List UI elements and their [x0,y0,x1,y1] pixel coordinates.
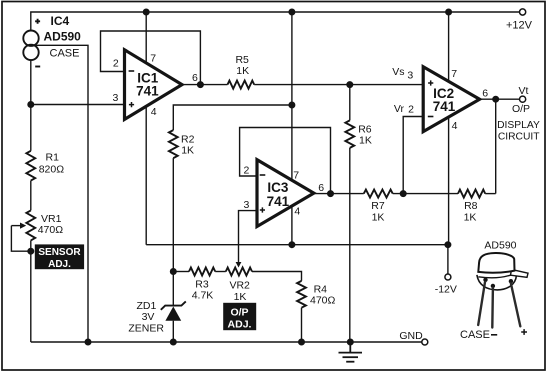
svg-text:3: 3 [407,69,413,81]
resistor R7 1K [364,190,393,224]
svg-text:3: 3 [243,199,249,211]
svg-text:CASE: CASE [50,47,80,59]
wire +12V top rail [31,12,520,30]
wire R4 to ground [301,308,303,342]
svg-text:1K: 1K [372,211,385,223]
wire R3 to VR2 [215,271,226,273]
node IC1 pin3 junction [28,102,34,108]
wire VR2 to R4 [252,272,302,281]
node IC1 output junction [198,82,204,88]
wire IC4 case lead to ground [36,45,89,342]
can body [478,253,514,273]
wire IC2 output down to R8 [495,99,497,193]
svg-text:VR2: VR2 [229,280,250,292]
ground symbol [339,342,363,362]
arrowhead VR2 wiper [236,262,242,268]
terminal Vt O/P [520,96,526,102]
node R6-gnd [348,339,354,345]
potentiometer VR2 1K [226,268,252,303]
svg-text:2: 2 [243,164,249,176]
svg-text:DISPLAY: DISPLAY [497,120,540,131]
node R4-gnd [299,339,305,345]
svg-text:+12V: +12V [506,19,533,31]
node zener-gnd [171,339,177,345]
wire IC2 pin4 to negative rail [448,118,450,245]
wire IC1 pin4 down to negative rail [145,106,147,244]
svg-text:4: 4 [294,206,300,218]
node Vr junction [400,191,406,197]
svg-text:4.7K: 4.7K [192,289,214,301]
svg-text:GND: GND [399,330,423,342]
negative supply rail [146,244,448,246]
resistor R1 820ohm [26,151,64,181]
svg-text:1K: 1K [234,291,247,303]
svg-text:6: 6 [482,87,488,99]
resistor R6 1K [345,120,371,147]
svg-text:1K: 1K [359,134,372,146]
wire IC3 output [314,193,364,195]
wire IC1 output to R5 [182,84,228,86]
wire IC4 bottom down left column [30,60,32,151]
wire IC1 pin3 input [31,104,125,106]
svg-text:IC3: IC3 [267,180,289,195]
terminal GND [422,339,428,345]
leads [478,282,520,328]
terminal +12V [520,9,526,15]
op-amp IC1 741 [112,50,198,120]
svg-text:SENSOR: SENSOR [38,247,81,258]
svg-text:O/P: O/P [230,307,248,319]
svg-text:CIRCUIT: CIRCUIT [498,132,540,143]
node IC3 pin4 junction [289,242,295,248]
svg-text:2: 2 [408,104,414,116]
svg-text:6: 6 [192,72,198,84]
node IC2 output junction [493,96,499,102]
wire VR1 down to ground rail [30,240,32,342]
svg-text:AD590: AD590 [484,239,516,251]
ground rail [31,341,422,343]
wire IC3 pin3 input from VR2 wiper [239,211,258,262]
resistor R4 470ohm [297,281,335,308]
node -12V junction [445,242,451,248]
wire R3/VR2 row [173,271,189,273]
svg-text:7: 7 [451,68,457,80]
wire IC1 feedback loop pin2 [101,31,201,85]
wire R2 bottom to zener [172,158,174,306]
node R6 top junction [347,82,353,88]
wire R2 top to +12V vertical [173,105,292,130]
wire IC3 pin4 down [291,207,293,245]
svg-text:3: 3 [112,92,118,104]
svg-text:ADJ.: ADJ. [48,259,71,270]
zener diode ZD1 3V [128,300,185,342]
wire R5 to IC2 pin3 (Vs) [254,84,423,86]
node VR1 wiper junction [28,248,34,254]
svg-text:3V: 3V [142,311,155,323]
wire to -12V terminal [447,245,449,274]
wire R8 to IC2 output vertical [485,193,496,195]
svg-text:4: 4 [452,120,458,132]
wire R1 to VR1 [30,181,32,211]
resistor R2 1K [169,130,195,158]
resistor R3 4.7K [189,268,215,302]
wire IC2 pin2 Vr input [403,117,423,194]
node pin7 rail junction [143,9,149,15]
svg-text:1K: 1K [464,211,477,223]
svg-text:ZENER: ZENER [128,323,164,335]
svg-text:R2: R2 [181,133,195,145]
wire IC2 pin7 from rail [448,12,450,80]
svg-text:VR1: VR1 [41,213,62,225]
potentiometer VR1 470ohm [11,210,63,251]
op-amp IC2 741 [407,67,488,132]
svg-text:470Ω: 470Ω [310,295,336,307]
lead pads [483,278,487,282]
svg-text:-12V: -12V [435,284,457,296]
wire IC2 output to Vt terminal [480,98,520,100]
node case-gnd [85,339,91,345]
node top rail junction [289,9,295,15]
IC4 current-source AD590 [23,14,81,66]
svg-text:Vr: Vr [394,103,405,115]
svg-text:741: 741 [136,83,159,98]
flange bottom arc [477,275,517,290]
node IC3 output junction [328,191,334,197]
svg-text:Vt: Vt [518,85,528,97]
terminal -12V [445,274,451,280]
node R2 wire junction [289,102,295,108]
svg-text:2: 2 [113,57,119,69]
node zener / R3 junction [171,269,177,275]
node pin7 rail junction [446,9,452,15]
svg-text:470Ω: 470Ω [38,224,64,236]
wire IC1 pin7 from +12V rail [145,12,147,63]
wire IC3 feedback loop pin2 [240,128,331,194]
wire R6 leads [349,85,351,121]
label box O/P ADJ [223,303,256,331]
svg-text:820Ω: 820Ω [39,163,65,175]
wire +12V vertical to IC3 pin7 [291,12,293,181]
svg-text:R8: R8 [464,200,478,212]
svg-text:AD590: AD590 [44,30,82,44]
svg-text:6: 6 [318,182,324,194]
resistor R8 1K [458,190,485,224]
svg-text:7: 7 [293,169,299,181]
op-amp IC3 741 [243,160,324,227]
label box SENSOR ADJ [35,244,84,269]
flange tab [511,269,529,277]
flange band lower edge [478,275,511,278]
svg-text:1K: 1K [181,145,194,157]
wire R7 to R8 [393,193,458,195]
svg-text:R7: R7 [371,200,385,212]
svg-text:IC4: IC4 [51,14,70,28]
svg-text:CASE: CASE [460,329,490,341]
svg-text:Vs: Vs [392,66,404,78]
svg-text:4: 4 [151,106,157,118]
svg-text:1K: 1K [236,65,249,77]
svg-text:O/P: O/P [512,103,530,115]
resistor R5 1K [228,54,255,89]
svg-text:R1: R1 [46,151,60,163]
svg-text:ADJ.: ADJ. [228,319,252,331]
svg-text:7: 7 [150,53,156,65]
svg-text:741: 741 [433,99,456,114]
svg-text:741: 741 [267,194,290,209]
AD590 package drawing [460,239,528,341]
